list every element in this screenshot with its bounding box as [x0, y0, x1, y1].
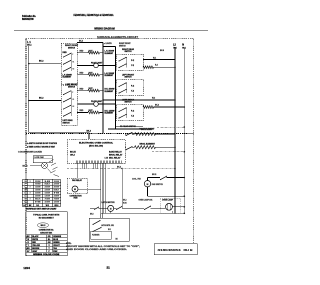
svg-text:NO DISCONNECT: NO DISCONNECT: [39, 217, 55, 219]
svg-text:SWITCH: SWITCH: [63, 122, 71, 124]
svg-text:1500W: 1500W: [45, 193, 51, 195]
svg-text:3: 3: [24, 187, 25, 189]
svg-text:ELEMENT: ELEMENT: [105, 113, 114, 115]
svg-text:700W: 700W: [45, 199, 51, 201]
right rear surface switch S3 (dashed box): [117, 54, 144, 70]
section divider (dashed): [26, 133, 193, 135]
svg-text:2: 2: [24, 184, 25, 186]
svg-text:TYPICAL CONN. POINT WITH: TYPICAL CONN. POINT WITH: [33, 213, 60, 216]
svg-text:BK-2: BK-2: [39, 98, 43, 100]
header rule: [14, 30, 208, 32]
svg-text:1250W: 1250W: [45, 196, 51, 198]
svg-text:1500W: 1500W: [54, 181, 60, 183]
contacts in S2: [64, 91, 71, 95]
door latch assembly box: [89, 218, 129, 241]
svg-text:X: X: [30, 193, 31, 195]
EOC pin comb connector: [75, 161, 77, 164]
svg-text:SWITCH: SWITCH: [125, 102, 133, 104]
svg-text:(EOC ES-100): (EOC ES-100): [89, 146, 103, 148]
svg-text:316045054: 316045054: [158, 248, 182, 252]
legend connector oval: [37, 223, 48, 228]
svg-text:2200W: 2200W: [35, 193, 41, 195]
lock hatch strokes: [49, 160, 54, 163]
svg-text:700W: 700W: [54, 199, 60, 201]
svg-text:X: X: [30, 199, 31, 201]
svg-text:W-36: W-36: [123, 202, 127, 204]
MDL wire (dash-dot): [157, 126, 184, 128]
electronic oven control U1 (dashed box): [67, 139, 125, 163]
latch switch contact: [114, 207, 117, 209]
svg-text:★ SWITCH SHOWN IN OFF POSITION: ★ SWITCH SHOWN IN OFF POSITION: [27, 142, 58, 145]
wire stubs below EOC: [82, 163, 84, 168]
svg-text:SURFACE UNIT SWITCH CHART: SURFACE UNIT SWITCH CHART: [27, 207, 58, 210]
latch feed contact: [90, 207, 95, 209]
broil relay contact K2: [126, 147, 132, 150]
svg-text:12/94: 12/94: [23, 266, 30, 270]
svg-text:LOCK CAM: LOCK CAM: [35, 156, 45, 159]
left front surface switch S4 (dashed box): [117, 80, 144, 96]
svg-text:ORANGE: ORANGE: [53, 235, 62, 238]
part number box: [154, 244, 197, 255]
svg-text:BK-2: BK-2: [155, 104, 159, 106]
svg-text:SWITCH: SWITCH: [119, 45, 126, 47]
wire L2 bus: [174, 47, 176, 213]
wire L1 bus: [28, 46, 30, 133]
svg-text:ELEMENT: ELEMENT: [105, 75, 114, 77]
svg-text:W-1: W-1: [153, 57, 156, 59]
lock cam circle: [42, 163, 48, 169]
svg-text:ELEMENT: ELEMENT: [105, 53, 114, 55]
svg-text:BAKE RELAY: BAKE RELAY: [109, 151, 122, 154]
svg-text:MDL RELAY: MDL RELAY: [109, 157, 121, 160]
svg-text:CONNECTOR NO.: CONNECTOR NO.: [39, 229, 54, 231]
svg-text:2500W: 2500W: [35, 196, 41, 198]
svg-text:SWITCH: SWITCH: [68, 47, 76, 49]
bundle drop into latch box: [100, 213, 102, 218]
svg-text:R-4: R-4: [155, 64, 158, 67]
svg-text:P: P: [72, 54, 73, 56]
svg-text:1: 1: [24, 181, 25, 183]
svg-text:WHITE: WHITE: [32, 239, 39, 241]
latch contact B: [93, 228, 101, 232]
wire collector A: [102, 43, 104, 134]
oven lamp enclosure (dashed): [160, 198, 180, 213]
svg-text:BK-18: BK-18: [23, 165, 28, 167]
schematic outer border (dashed): [26, 38, 97, 40]
svg-text:CIRCUIT BK: CIRCUIT BK: [40, 232, 53, 234]
cooling fan motor M3: [144, 181, 150, 187]
svg-text:BK-4: BK-4: [79, 39, 83, 42]
wire N bus: [183, 47, 185, 213]
svg-text:SWITCH: SWITCH: [125, 77, 133, 79]
element R1: right front surface element: [77, 52, 88, 54]
wire bottom rail: [101, 212, 185, 214]
right front surface switch S1 (dashed box): [61, 43, 77, 85]
svg-text:X: X: [30, 181, 31, 183]
svg-text:BK-55: BK-55: [70, 152, 77, 154]
svg-text:BROIL RELAY: BROIL RELAY: [109, 154, 123, 157]
svg-text:VIOLET: VIOLET: [53, 245, 60, 247]
svg-text:ELEMENT: ELEMENT: [105, 91, 114, 93]
svg-text:8: 8: [24, 202, 25, 204]
left rear surface switch S5 (dashed box): [117, 105, 144, 121]
wire conv-fan feed: [77, 163, 79, 178]
svg-text:W-2: W-2: [108, 229, 111, 231]
svg-text:BK-2: BK-2: [87, 130, 91, 132]
svg-text:BLACK: BLACK: [32, 235, 39, 238]
element R2: right rear surface element: [77, 74, 88, 76]
svg-text:350W: 350W: [45, 202, 51, 204]
svg-text:H1: H1: [72, 99, 74, 101]
svg-text:GRAY: GRAY: [32, 250, 38, 253]
svg-text:1250W: 1250W: [35, 187, 41, 189]
element R3: left front surface element: [77, 90, 88, 92]
svg-text:RH B: RH B: [184, 248, 193, 252]
svg-text:SWITCH: SWITCH: [125, 51, 133, 53]
latch inner box: [91, 231, 112, 239]
svg-text:BK-2: BK-2: [123, 199, 127, 201]
contacts in S1: [64, 53, 71, 57]
svg-text:FAN: FAN: [74, 197, 78, 200]
svg-text:BK-2: BK-2: [39, 61, 43, 63]
svg-text:7: 7: [24, 199, 25, 201]
wiring legend box: [26, 212, 68, 256]
svg-text:RED: RED: [63, 52, 68, 54]
svg-text:6: 6: [24, 196, 25, 198]
wire fan bottom to N: [147, 187, 149, 196]
svg-text:5: 5: [24, 193, 25, 195]
svg-text:700W: 700W: [35, 184, 41, 186]
svg-text:OR-3: OR-3: [54, 205, 58, 207]
svg-text:N: N: [182, 43, 184, 46]
svg-text:BK-8: BK-8: [90, 213, 94, 215]
door lock mechanism inset: [33, 156, 52, 163]
svg-text:350W: 350W: [54, 196, 60, 198]
svg-text:YELLOW: YELLOW: [32, 245, 40, 247]
svg-text:W-2: W-2: [46, 205, 49, 207]
wire dash-dot rail to L2: [67, 168, 175, 170]
wire fan to bundle: [78, 188, 101, 190]
svg-text:ELECTRONIC OVEN CONTROL: ELECTRONIC OVEN CONTROL: [79, 143, 114, 145]
element R4: left rear surface element: [77, 111, 88, 113]
svg-text:1250W: 1250W: [54, 202, 60, 204]
svg-text:BK-1: BK-1: [27, 45, 31, 47]
svg-text:BLUE: BLUE: [53, 239, 59, 241]
svg-text:+ LIGHTS: + LIGHTS: [104, 43, 113, 45]
svg-text:PLUNGER: PLUNGER: [92, 234, 100, 236]
svg-text:WIRING DIAGRAM: WIRING DIAGRAM: [94, 26, 115, 30]
svg-text:GREEN: GREEN: [53, 242, 60, 244]
svg-text:LATCH MOTOR: LATCH MOTOR: [102, 201, 116, 204]
svg-text:5995391788: 5995391788: [22, 18, 34, 21]
svg-text:P: P: [72, 92, 73, 94]
switch chart table: [22, 178, 60, 180]
svg-text:A-2: A-2: [23, 204, 26, 207]
bake relay contact K1: [126, 133, 132, 136]
svg-text:SWITCH: SWITCH: [68, 86, 76, 88]
svg-text:H2: H2: [72, 106, 74, 108]
svg-text:OVEN LAMP: OVEN LAMP: [162, 199, 174, 202]
svg-text:1500W: 1500W: [35, 190, 41, 192]
wire to N (dash-dot): [152, 151, 184, 153]
svg-text:PINK: PINK: [53, 251, 58, 253]
svg-text:BROWN: BROWN: [32, 248, 40, 250]
svg-text:21: 21: [107, 266, 111, 270]
svg-text:H2: H2: [72, 68, 74, 70]
svg-text:BAKE ELEMENT: BAKE ELEMENT: [140, 128, 156, 131]
left front surface switch S2 (dashed box): [61, 85, 77, 125]
svg-text:★ DOOR SHOWN LOCKED: ★ DOOR SHOWN LOCKED: [18, 150, 43, 153]
svg-text:W: W: [27, 239, 29, 241]
svg-text:FAN RELAY: FAN RELAY: [72, 179, 83, 182]
svg-text:BK-8: BK-8: [160, 50, 164, 52]
wire drop to latch row: [121, 169, 123, 209]
wire collector B: [114, 47, 116, 130]
oven lamp DS3: [166, 203, 173, 210]
wire harness bundle: [100, 163, 102, 213]
svg-text:W-2: W-2: [152, 98, 155, 100]
svg-text:R-1: R-1: [36, 205, 39, 207]
wire bottom ties: [115, 125, 143, 127]
svg-text:350W: 350W: [35, 181, 41, 183]
svg-text:2200W: 2200W: [45, 190, 51, 192]
svg-text:BK-2: BK-2: [117, 166, 121, 168]
svg-text:FED367HDA, FED367HQA & FED367H: FED367HDA, FED367HQA & FED367HSA: [74, 13, 114, 17]
svg-text:◆ TIMER CONTACT SHOWN AT REST: ◆ TIMER CONTACT SHOWN AT REST: [26, 145, 56, 148]
svg-text:H1: H1: [72, 61, 74, 63]
convection fan relay (dashed box): [67, 178, 88, 194]
svg-text:ELEMENT: ELEMENT: [63, 77, 72, 79]
svg-text:X: X: [30, 187, 31, 189]
convection fan motor M1: [72, 186, 78, 192]
svg-text:2500W: 2500W: [45, 187, 51, 189]
svg-text:2500W: 2500W: [54, 187, 60, 189]
svg-text:RT. REAR SWITCH: RT. REAR SWITCH: [120, 125, 137, 128]
svg-text:BK-31: BK-31: [152, 174, 157, 176]
wiring color code table: [26, 234, 68, 236]
latch contact A: [93, 221, 100, 225]
svg-text:WIRING COLOR CODE: WIRING COLOR CODE: [33, 254, 60, 256]
svg-text:2200W: 2200W: [54, 184, 60, 186]
wire top tie: [103, 46, 115, 48]
